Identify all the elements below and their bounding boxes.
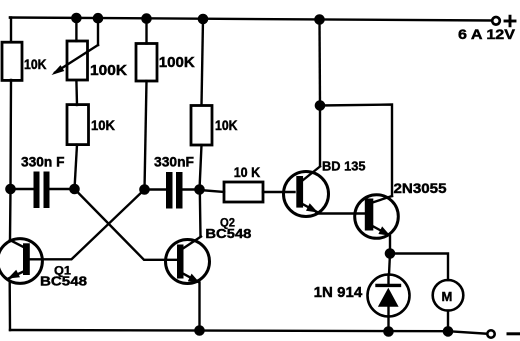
svg-text:100K: 100K [90,63,128,79]
node junction dot C1 left [6,185,14,193]
svg-text:10K: 10K [215,117,238,133]
wire bottom rail [10,330,488,334]
wire R3 bottom to C2 node [145,81,147,190]
svg-text:10K: 10K [91,117,115,133]
wire C1 right lead [50,188,75,190]
svg-text:6 A 12V: 6 A 12V [458,26,516,42]
wire R4 top [202,19,204,105]
wire to motor [390,254,448,281]
wire R3 top [145,19,147,44]
resistor R3 100K [136,44,157,82]
node junction dot motor/rail [444,327,452,335]
wire R5 to BD135 base [263,191,295,193]
node junction dot collector tee [316,101,324,109]
terminal - supply [487,330,494,337]
svg-text:2N3055: 2N3055 [394,180,447,196]
svg-text:10K: 10K [24,56,47,72]
svg-text:M: M [442,289,453,304]
resistor R1 10K [2,42,22,80]
wire R2 to C1 node [75,145,78,189]
node junction dot rail / R4 [199,15,207,23]
wire C1 left lead [11,188,34,190]
wire cross-coupling C1 to Q2 base [75,189,178,260]
node junction dot C1 right [70,185,78,193]
wire motor to rail [447,311,449,332]
node junction dot top rail / pot [72,14,80,22]
svg-text:330nF: 330nF [154,154,194,170]
wire BD135 emitter to Q4 base [316,212,365,214]
wire diode to rail [387,317,389,332]
potentiometer P1 100K body [67,41,88,80]
svg-text:BC548: BC548 [40,274,87,289]
svg-text:100K: 100K [159,55,196,71]
wire top supply rail [10,18,492,21]
wire Q4 emitter down [389,236,391,254]
wire BD135 collector to tee [319,106,321,167]
wire R4 bottom to C2 right node [200,145,202,190]
resistor R2 10K [67,105,89,145]
minus sign [508,332,520,335]
wire pot to R2 [75,81,78,106]
wire R1 bottom to C1 node [9,80,12,189]
wire BD135 collector riser [318,20,321,106]
wire Q1 collector up [9,189,12,240]
node junction dot top rail / BD135 collector [315,15,323,23]
resistor R4 10K [191,106,212,146]
motor M [433,280,464,311]
node junction dot diode/rail [384,327,392,335]
+ sign [505,16,515,26]
node junction dot Q2 emitter/rail [195,326,203,334]
transistor Q4 2N3055 [355,195,399,239]
wire wiper from rail [97,18,99,45]
node junction dot emitter tee [386,249,394,257]
node junction dot top rail / wiper [94,14,102,22]
transistor Q1 BC548 [0,239,42,284]
terminal + supply [492,17,500,25]
wire C2 node to R5 [200,190,225,192]
svg-text:330n F: 330n F [21,154,65,170]
wire emitter node to diode [389,254,390,275]
wire C2 right lead [183,188,200,190]
node junction dot C2 right [195,185,203,193]
svg-text:BD 135: BD 135 [322,159,366,174]
resistor R5 10K [224,182,263,202]
svg-text:10 K: 10 K [234,164,261,180]
wire cross-coupling C2 to Q1 base [31,190,145,260]
capacitor C1 330nF [34,172,50,209]
wire left drop from rail [10,18,11,42]
diode D1 1N914 [368,275,410,317]
wiper arrow [55,45,98,73]
wire Q2 emitter down [198,283,200,332]
transistor Q3 BD135 [284,167,329,217]
wire Q1 emitter down [8,282,11,330]
node junction dot C2 left [140,185,148,193]
node junction dot rail / R3 [142,15,150,23]
wire C2 left lead [145,188,167,190]
svg-text:BC548: BC548 [205,226,251,241]
transistor Q2 BC548 [166,237,210,284]
wire pot top [75,18,77,41]
wire to 2N3055 collector [320,105,392,197]
svg-text:1N 914: 1N 914 [314,284,363,301]
capacitor C2 330nF [166,172,183,209]
wire Q2 collector up [199,190,202,237]
